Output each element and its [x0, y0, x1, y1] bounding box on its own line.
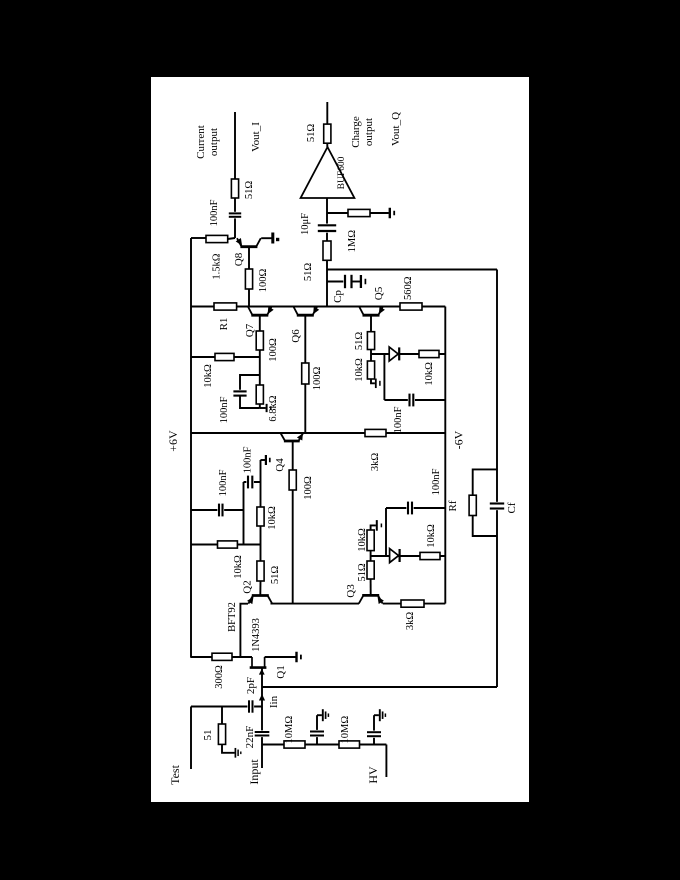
svg-text:Test: Test: [168, 764, 182, 784]
svg-text:51Ω: 51Ω: [306, 124, 317, 143]
wire 10k bias line: [191, 356, 260, 358]
svg-text:10kΩ: 10kΩ: [233, 555, 244, 579]
svg-text:51Ω: 51Ω: [357, 563, 368, 582]
wire Q1 drain line with 300-ohm: [191, 656, 252, 658]
svg-text:100nF: 100nF: [219, 396, 230, 423]
wire Rf bracket left: [473, 516, 497, 537]
wire Q4 line (+6V to -6V): [191, 432, 445, 434]
svg-text:100Ω: 100Ω: [258, 269, 269, 293]
wire 51-ohm branch: [221, 707, 223, 725]
svg-text:100Ω: 100Ω: [268, 338, 279, 362]
svg-text:300Ω: 300Ω: [214, 665, 225, 689]
svg-text:1N4393: 1N4393: [251, 618, 262, 652]
wire cascode line: [191, 306, 445, 308]
node Iin input row: [261, 668, 263, 768]
resistor 6.8k-ohm: [256, 385, 263, 404]
wire Iin arrow: [259, 694, 265, 701]
svg-text:Rf: Rf: [447, 500, 459, 511]
wire to node A: [228, 238, 235, 239]
ground (input filter 1): [322, 709, 324, 721]
resistor 300-ohm: [212, 653, 232, 660]
resistor 10k-ohm (Q7 bias): [215, 353, 234, 360]
capacitor 100nF (Q4 bypass): [244, 481, 261, 483]
resistor 10k-ohm (Q3 row): [367, 530, 374, 551]
wire to test ground: [222, 744, 235, 752]
wire junction A: [370, 551, 372, 561]
svg-text:1.5kΩ: 1.5kΩ: [212, 253, 223, 279]
ground (test 51): [234, 748, 236, 758]
wire Test line: [190, 707, 192, 770]
resistor 51-ohm (Q5 base): [367, 332, 374, 350]
wire Q6 base row: [304, 384, 306, 433]
svg-text:-6V: -6V: [452, 430, 466, 449]
wire 1.5k feed: [191, 237, 206, 239]
wire feedback left leg: [262, 686, 497, 688]
transistor Q2 BFT92: [252, 594, 269, 597]
ground (Q5 bias): [375, 379, 377, 389]
resistor 51-ohm (Q3 base): [367, 561, 374, 579]
resistor Rf: [469, 495, 476, 515]
resistor 100-ohm (Q8 base): [245, 269, 252, 289]
svg-text:Q1: Q1: [275, 665, 287, 678]
capacitor 100nF (cell A): [386, 507, 445, 509]
resistor 100-ohm (Q7 base): [256, 331, 263, 350]
ground (Q4 bypass): [261, 459, 266, 461]
resistor 10k-ohm (Q2 row): [257, 507, 264, 526]
ground (Q8 collector terminal): [271, 233, 274, 244]
wire Q2 base row 51-ohm: [259, 581, 261, 596]
ground (Q7 cell): [266, 404, 268, 412]
wire feedback right leg: [327, 269, 497, 271]
wire jog 2: [374, 714, 379, 716]
svg-text:output: output: [208, 128, 220, 156]
wire diode leg A: [371, 555, 446, 557]
capacitor Cp: [327, 281, 345, 283]
svg-text:10kΩ: 10kΩ: [354, 358, 365, 382]
svg-text:Q3: Q3: [345, 584, 357, 598]
svg-text:Charge: Charge: [350, 116, 362, 148]
resistor 3k-ohm (Q4 line): [365, 429, 386, 436]
wire test branch down to input node: [191, 706, 262, 708]
svg-text:100nF: 100nF: [243, 446, 254, 473]
wire decoupling branch 1: [316, 715, 318, 744]
transistor Q5: [363, 314, 380, 317]
svg-text:51Ω: 51Ω: [303, 263, 314, 282]
ground (Q1 source): [295, 652, 297, 663]
capacitor 100nF (Q7 bypass): [240, 375, 260, 391]
svg-text:10kΩ: 10kΩ: [267, 506, 278, 530]
resistor 560-ohm: [400, 303, 422, 310]
wire Q4 base row: [292, 490, 294, 604]
svg-text:10μF: 10μF: [300, 213, 311, 235]
wire Q1 source to ground: [265, 656, 296, 658]
svg-text:Input: Input: [247, 759, 261, 785]
svg-text:10kΩ: 10kΩ: [203, 364, 214, 388]
transistor Q6: [297, 314, 314, 317]
resistor 51-ohm (charge output): [324, 124, 331, 143]
svg-text:Q6: Q6: [290, 329, 302, 343]
svg-text:3kΩ: 3kΩ: [405, 612, 416, 631]
svg-text:10MΩ: 10MΩ: [340, 716, 351, 744]
svg-text:Current: Current: [195, 125, 207, 159]
svg-text:Iin: Iin: [268, 695, 280, 708]
wire Q8 collector to terminal: [261, 237, 271, 239]
wire jog: [317, 714, 322, 716]
capacitor Cf: [489, 502, 505, 510]
wire bias feed vertical: [191, 544, 261, 546]
svg-text:100nF: 100nF: [431, 468, 442, 495]
op-amp U1 BUF600: [301, 147, 355, 198]
resistor 51-ohm (current output): [231, 179, 238, 198]
svg-text:+6V: +6V: [166, 430, 180, 452]
wire cellB cap branch: [383, 354, 385, 400]
svg-text:Vout_Q: Vout_Q: [390, 112, 402, 146]
svg-text:10kΩ: 10kΩ: [357, 528, 368, 552]
svg-text:Cf: Cf: [506, 502, 518, 513]
wire base to bar: [292, 441, 294, 470]
capacitor 100nF (current output): [228, 212, 242, 219]
svg-text:1MΩ: 1MΩ: [347, 230, 358, 253]
resistor 100-ohm (Q6 base): [302, 363, 309, 384]
svg-text:BFT92: BFT92: [227, 602, 238, 632]
resistor 10k-ohm (diode leg A): [420, 552, 440, 559]
wire Q5 base row: [370, 315, 372, 332]
wire to cellA ground: [371, 525, 376, 530]
svg-text:100nF: 100nF: [393, 406, 404, 433]
wire Rf bracket right: [473, 469, 497, 495]
svg-text:HV: HV: [366, 766, 380, 784]
svg-text:22nF: 22nF: [244, 726, 256, 749]
svg-text:100nF: 100nF: [218, 469, 229, 496]
ground (Q3 bias): [376, 520, 378, 531]
svg-text:100Ω: 100Ω: [312, 367, 323, 391]
wire node to bypass: [260, 460, 262, 507]
svg-text:3kΩ: 3kΩ: [370, 453, 381, 472]
wire bypass row: [243, 482, 245, 545]
wire Q8 base row: [248, 247, 250, 269]
ground (input filter 2): [379, 709, 381, 721]
svg-text:10kΩ: 10kΩ: [424, 362, 435, 386]
diode (cell A): [390, 549, 399, 563]
resistor 10M-ohm 1: [284, 741, 305, 748]
svg-text:51Ω: 51Ω: [270, 566, 281, 585]
wire Cp ground stub: [352, 281, 361, 283]
svg-text:BUF600: BUF600: [337, 156, 347, 189]
resistor 10k-ohm (bias feed): [218, 541, 238, 548]
wire 1M-ohm branch: [327, 212, 348, 214]
svg-text:560Ω: 560Ω: [403, 276, 414, 300]
svg-text:51Ω: 51Ω: [244, 181, 255, 200]
resistor 1M-ohm: [348, 209, 370, 216]
svg-text:Q5: Q5: [373, 286, 385, 300]
capacitor 100nF (cell B): [384, 399, 445, 401]
transistor Q4: [284, 440, 300, 443]
wire HV feed: [385, 745, 387, 778]
resistor 1.5k-ohm: [206, 235, 228, 242]
wire Q8 base to cascode: [248, 289, 250, 307]
svg-text:Q7: Q7: [244, 323, 256, 337]
node -6V rail: [444, 307, 446, 604]
wire node to 6.8k: [259, 350, 261, 385]
transistor Q3: [362, 594, 379, 597]
resistor R1: [214, 303, 237, 310]
wire Q7 base row: [259, 315, 261, 331]
wire to -6V corner: [424, 603, 445, 605]
wire charge output lead: [326, 102, 328, 124]
resistor 51-ohm (buffer input): [323, 241, 331, 260]
transistor Q7: [251, 314, 268, 317]
svg-text:2pF: 2pF: [245, 677, 257, 694]
ground (Cp): [360, 275, 362, 288]
wire to Q7 ground: [259, 404, 261, 408]
svg-text:output: output: [363, 118, 375, 146]
wire feedback bottom run: [496, 270, 498, 688]
wire decoupling branch 2: [373, 715, 375, 744]
diode (cell B): [389, 347, 398, 361]
wire Q3 emitter down: [383, 603, 401, 605]
wire current output row: [234, 112, 236, 238]
wire Q6 base to bar: [304, 315, 306, 363]
svg-text:51: 51: [202, 730, 214, 741]
resistor 3k-ohm (Q3 emitter): [401, 600, 424, 607]
svg-text:Cp: Cp: [332, 290, 344, 303]
resistor 51 (test): [218, 724, 225, 744]
svg-text:100nF: 100nF: [209, 199, 220, 226]
resistor 10k-ohm (diode leg B): [419, 350, 439, 357]
ground (1M-ohm): [389, 208, 391, 219]
wire cellA cap branch: [385, 508, 387, 556]
svg-text:R1: R1: [218, 318, 230, 331]
svg-text:Q2: Q2: [242, 580, 254, 593]
wire Q3 base row: [370, 579, 372, 595]
wire Q2 emitter to Q1 drain node: [240, 604, 248, 658]
svg-text:100Ω: 100Ω: [303, 476, 314, 500]
resistor 10k-ohm (Q5 row): [367, 361, 374, 379]
resistor 51-ohm (Q2 base): [257, 561, 264, 581]
svg-text:10kΩ: 10kΩ: [426, 524, 437, 548]
capacitor 100nF (rail bypass): [191, 509, 244, 511]
capacitor (input filter 1): [309, 730, 325, 737]
capacitor (input filter 2): [366, 731, 382, 738]
svg-text:6.8kΩ: 6.8kΩ: [268, 395, 279, 421]
transistor Q1 1N4393 JFET: [250, 666, 267, 669]
wire junction B: [370, 350, 372, 362]
resistor 10M-ohm 2: [339, 741, 360, 748]
capacitor 10uF: [317, 224, 337, 233]
wire buffer output: [326, 143, 328, 147]
capacitor 2pF: [247, 699, 254, 713]
wire 1M ground stub: [370, 212, 389, 214]
wire J2 segment: [260, 526, 262, 561]
capacitor 22nF: [254, 730, 271, 737]
wire signal row to BUF600: [326, 198, 328, 307]
svg-text:51Ω: 51Ω: [354, 332, 365, 351]
svg-text:Q8: Q8: [233, 252, 245, 266]
svg-text:Q4: Q4: [274, 458, 286, 472]
wire collector bus lx198: [271, 603, 360, 605]
wire diode leg B: [371, 353, 445, 355]
wire to cellB ground: [371, 379, 375, 383]
svg-text:Vout_I: Vout_I: [250, 122, 262, 152]
wire input bias bus: [262, 744, 386, 746]
resistor 100-ohm (Q4 base): [289, 470, 296, 490]
svg-text:10MΩ: 10MΩ: [284, 716, 295, 744]
transistor Q8: [240, 245, 257, 248]
node +6V rail: [190, 238, 192, 658]
